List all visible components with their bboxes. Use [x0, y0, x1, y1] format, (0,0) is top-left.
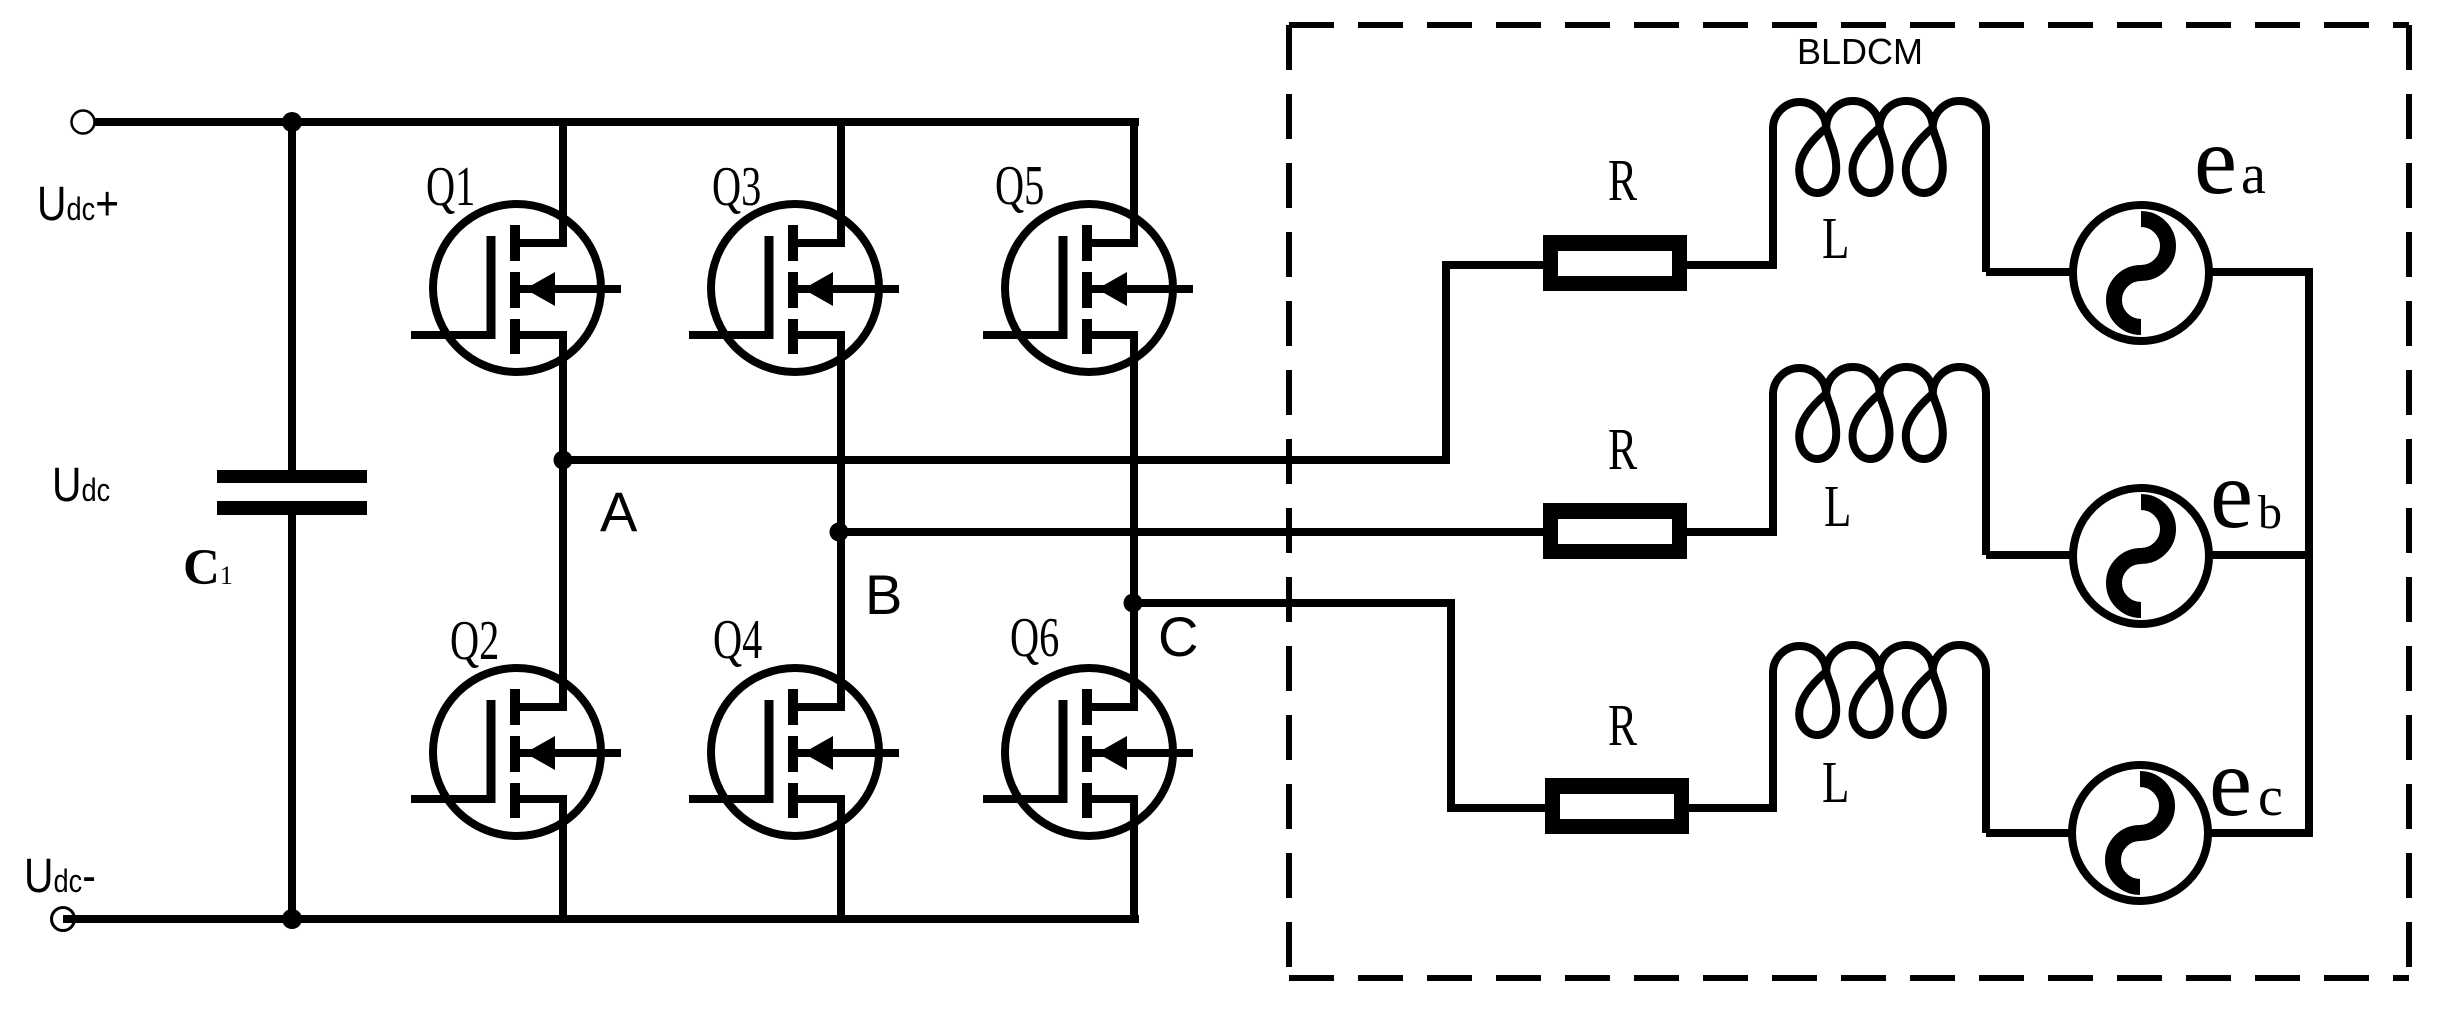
wire resistor a to inductor a	[1687, 261, 1777, 269]
svg-text:A: A	[600, 480, 638, 543]
transistor Q2 (N-MOSFET)	[411, 668, 621, 836]
wire leg B top segment (drain of Q3)	[837, 122, 845, 247]
wire phase C to BLDCM	[1134, 603, 1549, 808]
svg-text:Q3: Q3	[712, 156, 761, 218]
wire leg C top segment (drain of Q5)	[1130, 122, 1138, 247]
wire phase B to BLDCM	[841, 528, 1547, 536]
svg-text:e: e	[2194, 107, 2237, 214]
junction node B	[830, 523, 849, 542]
svg-text:C: C	[1158, 605, 1198, 668]
wire leg C bottom segment	[1130, 795, 1138, 919]
terminal Udc-	[52, 908, 75, 931]
capacitor C1	[217, 470, 367, 515]
wire top rail	[94, 118, 1139, 126]
transistor Q6 (N-MOSFET)	[983, 668, 1193, 836]
wire leg A middle segment	[559, 331, 567, 711]
source ea (back-EMF)	[2073, 205, 2209, 341]
svg-text:B: B	[865, 563, 902, 626]
wire bottom rail	[63, 915, 1139, 923]
wire leg A top segment (drain of Q1)	[559, 122, 567, 247]
inductor L (phase b)	[1773, 367, 1986, 555]
svg-text:R: R	[1608, 694, 1637, 759]
wire C1 top lead	[288, 118, 296, 474]
junction dot top rail to C1	[282, 112, 302, 132]
svg-text:Q4: Q4	[713, 609, 762, 671]
junction node C	[1124, 594, 1143, 613]
svg-text:L: L	[1822, 750, 1849, 815]
inductor L (phase c)	[1773, 645, 1986, 833]
wire phase A to BLDCM	[563, 265, 1547, 460]
source eb (back-EMF)	[2073, 488, 2209, 624]
wire resistor c to inductor c	[1689, 804, 1777, 812]
wire source eb to neutral bus	[2205, 551, 2313, 559]
resistor R (phase a)	[1543, 235, 1687, 291]
wire neutral bus (right)	[2305, 268, 2313, 837]
svg-text:BLDCM: BLDCM	[1797, 31, 1923, 72]
inductor L (phase a)	[1773, 101, 1986, 272]
svg-text:Q5: Q5	[995, 155, 1044, 217]
svg-text:e: e	[2209, 729, 2252, 836]
motor boundary dashed box (BLDCM)	[1289, 25, 2409, 978]
svg-text:L: L	[1822, 206, 1849, 271]
wire leg A bottom segment	[559, 795, 567, 919]
wire C1 bottom lead	[288, 512, 296, 919]
source ec (back-EMF)	[2072, 765, 2208, 901]
junction dot bottom rail to C1	[282, 909, 302, 929]
resistor R (phase b)	[1543, 503, 1687, 559]
svg-text:Q6: Q6	[1010, 607, 1059, 669]
wire inductor a to source ea	[1986, 268, 2077, 276]
wire resistor b to inductor b	[1687, 528, 1777, 536]
terminal Udc+	[72, 111, 95, 134]
junction node A	[554, 451, 573, 470]
svg-text:R: R	[1608, 149, 1637, 214]
svg-text:Q1: Q1	[426, 156, 475, 218]
transistor Q4 (N-MOSFET)	[689, 668, 899, 836]
wire inductor c to source ec	[1986, 829, 2076, 837]
svg-text:b: b	[2258, 486, 2282, 539]
svg-text:c: c	[2258, 766, 2283, 828]
svg-text:R: R	[1608, 418, 1637, 483]
wire leg C middle segment	[1130, 331, 1138, 711]
resistor R (phase c)	[1545, 778, 1689, 834]
wire leg B middle segment	[837, 331, 845, 711]
svg-text:e: e	[2210, 441, 2253, 548]
transistor Q5 (N-MOSFET)	[983, 204, 1193, 372]
svg-text:L: L	[1824, 474, 1851, 539]
svg-text:Q2: Q2	[450, 610, 499, 672]
wire source ec to neutral bus	[2204, 829, 2313, 837]
svg-text:a: a	[2241, 144, 2266, 206]
wire source ea to neutral bus	[2205, 268, 2313, 276]
wire leg B bottom segment	[837, 795, 845, 919]
transistor Q1 (N-MOSFET)	[411, 204, 621, 372]
transistor Q3 (N-MOSFET)	[689, 204, 899, 372]
wire inductor b to source eb	[1986, 551, 2077, 559]
